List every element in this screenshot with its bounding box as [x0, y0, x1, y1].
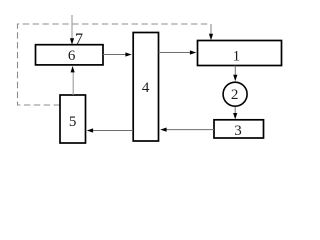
wire: input line 7 into box 6 top: [71, 15, 73, 40]
wire: box 4 to box 5: [93, 130, 134, 132]
arrowhead into box 6 bottom: [71, 66, 75, 72]
arrowhead into box 4 right: [160, 128, 166, 132]
wire: vertical drop from dashed path into box 1 top: [210, 24, 212, 35]
svg-text:3: 3: [234, 123, 242, 139]
box 5: [60, 95, 86, 143]
box 1: [198, 41, 282, 66]
arrowhead into box 3 top: [233, 113, 237, 119]
arrowhead into box 1 left: [190, 50, 196, 54]
box 3: [214, 120, 264, 138]
wire: box 5 to box 6: [72, 72, 74, 96]
wire: box 3 to box 4: [166, 129, 214, 131]
svg-text:2: 2: [231, 87, 239, 103]
arrowhead into box 5 right: [87, 128, 93, 132]
svg-text:6: 6: [68, 48, 76, 64]
wire: dashed feedback path (box 5 left, up left side, across top toward box 1): [18, 24, 212, 105]
arrowhead into box 6 top: [70, 38, 74, 44]
wire: box 4 to box 1: [159, 52, 191, 54]
arrowhead into circle 2 top: [233, 75, 237, 81]
wire: box 1 to circle 2: [234, 66, 236, 77]
svg-text:5: 5: [69, 114, 77, 130]
arrowhead into box 1 top: [209, 34, 213, 40]
svg-text:1: 1: [233, 48, 241, 64]
wire: box 6 to box 4: [103, 54, 126, 56]
wire: circle 2 to box 3: [234, 107, 236, 114]
arrowhead into box 4 left: [125, 52, 131, 56]
svg-text:4: 4: [142, 80, 150, 96]
circle 2: [223, 82, 247, 106]
box 6: [36, 45, 104, 65]
box 4: [133, 33, 158, 142]
